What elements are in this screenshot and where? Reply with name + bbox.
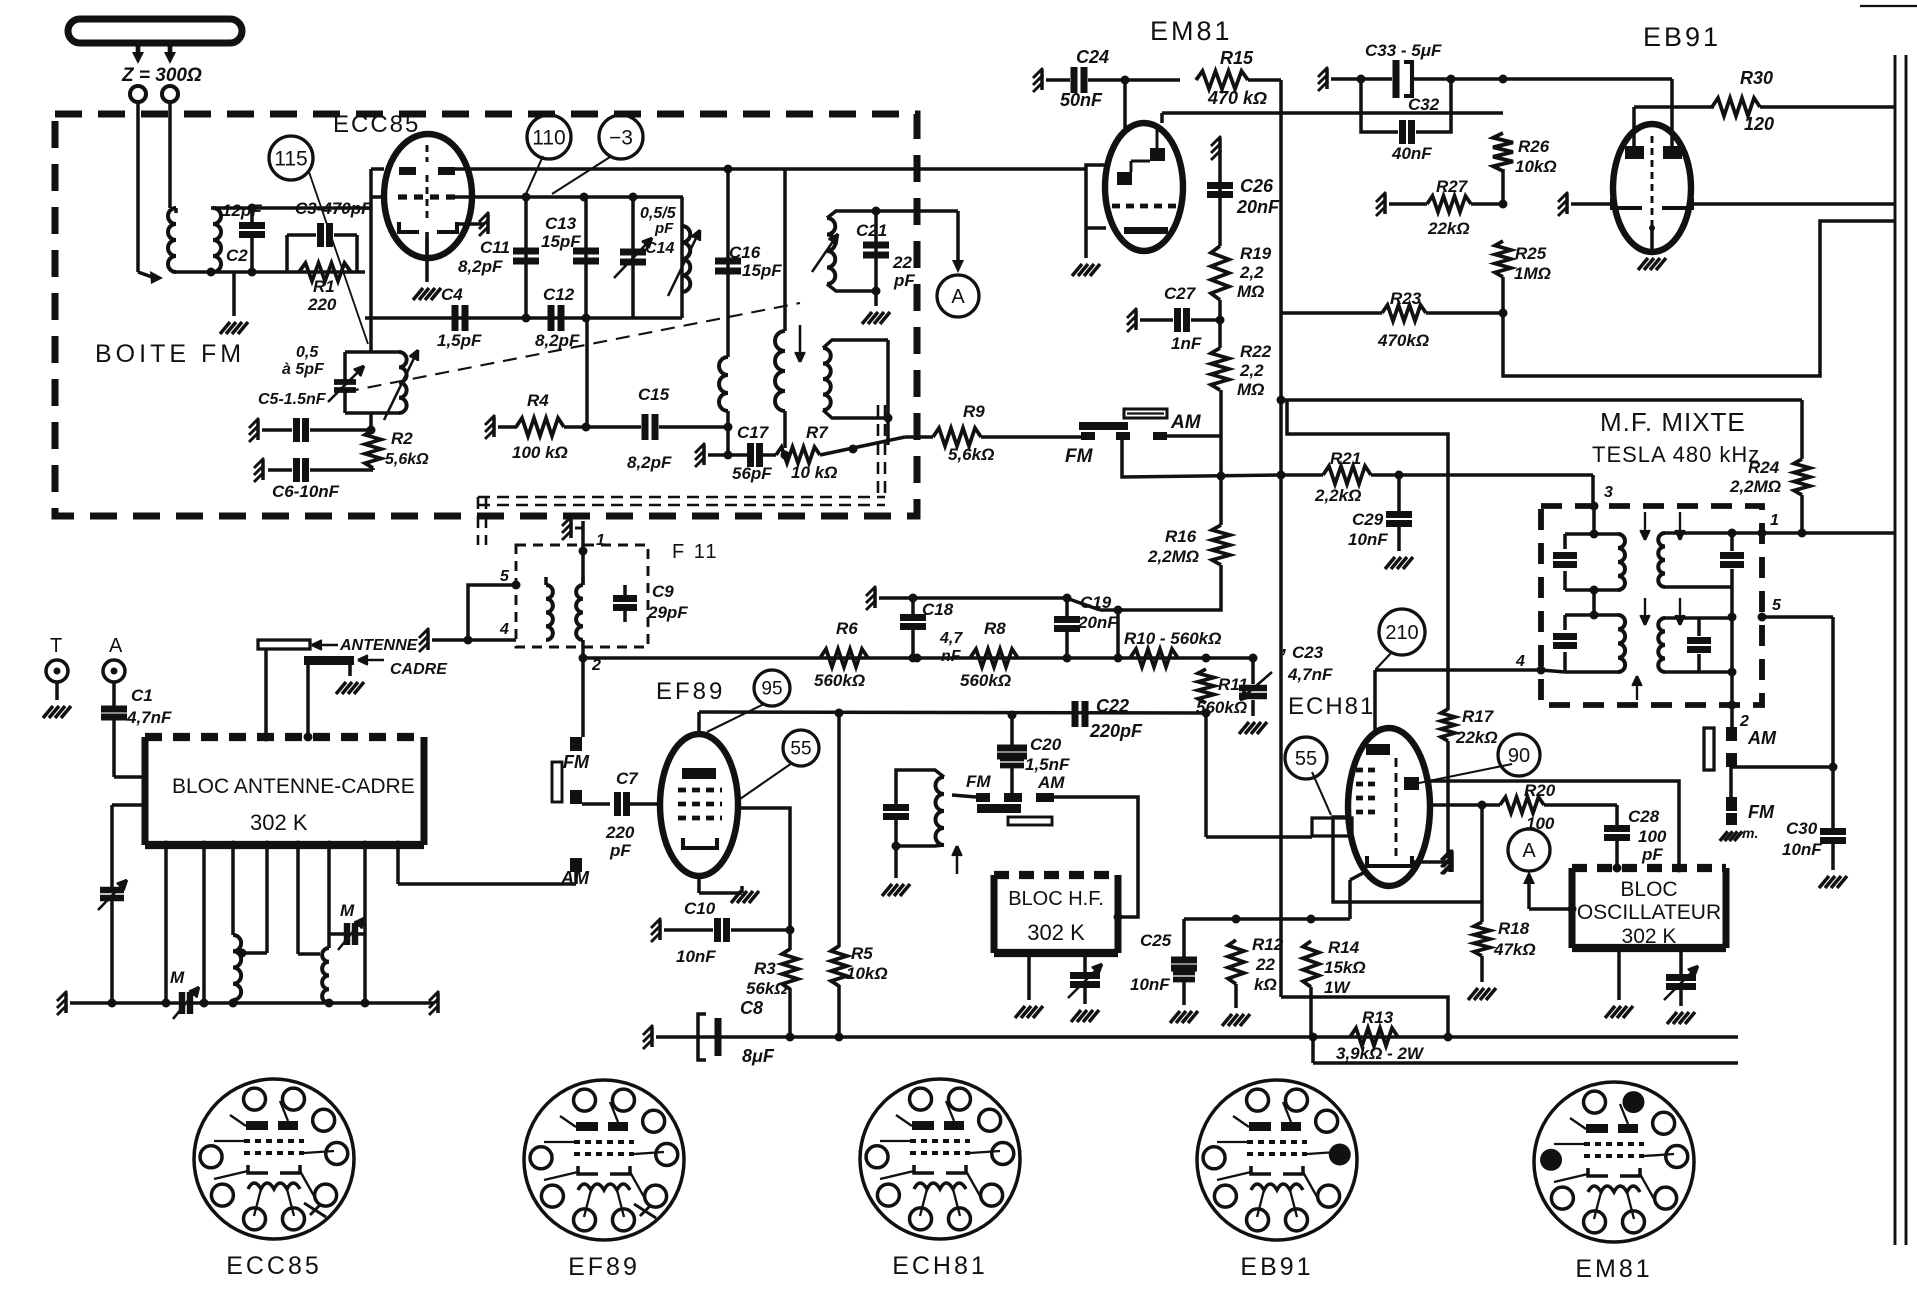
svg-text:ECC85: ECC85 (333, 111, 420, 138)
svg-text:10kΩ: 10kΩ (1515, 157, 1557, 176)
svg-text:210: 210 (1385, 622, 1418, 644)
svg-text:AM: AM (1747, 728, 1777, 748)
svg-text:R6: R6 (836, 619, 858, 638)
svg-text:20nF: 20nF (1236, 197, 1280, 217)
svg-text:1MΩ: 1MΩ (1514, 264, 1551, 283)
svg-text:R23: R23 (1390, 289, 1422, 308)
svg-text:R14: R14 (1328, 938, 1360, 957)
svg-text:R8: R8 (984, 619, 1006, 638)
svg-text:C18: C18 (922, 600, 954, 619)
svg-text:FM: FM (1748, 802, 1775, 822)
svg-text:4,7: 4,7 (939, 630, 963, 647)
svg-text:C7: C7 (616, 769, 639, 788)
svg-text:22: 22 (892, 253, 912, 272)
svg-text:EB91: EB91 (1643, 22, 1721, 52)
svg-text:TESLA 480 kHz: TESLA 480 kHz (1592, 442, 1760, 467)
svg-text:470kΩ: 470kΩ (1377, 331, 1429, 350)
svg-text:R3: R3 (754, 959, 776, 978)
svg-text:EF89: EF89 (568, 1253, 640, 1281)
svg-text:nF: nF (941, 648, 962, 665)
svg-text:22kΩ: 22kΩ (1427, 219, 1470, 238)
svg-text:C27: C27 (1164, 284, 1197, 303)
svg-text:5,6kΩ: 5,6kΩ (385, 451, 429, 468)
svg-text:M.F. MIXTE: M.F. MIXTE (1600, 407, 1746, 437)
svg-text:A: A (109, 635, 123, 657)
svg-text:560kΩ: 560kΩ (814, 671, 865, 690)
svg-text:5,6kΩ: 5,6kΩ (948, 445, 994, 464)
svg-text:55: 55 (1295, 748, 1317, 770)
svg-text:2,2: 2,2 (1239, 263, 1264, 282)
svg-text:2,2MΩ: 2,2MΩ (1729, 477, 1781, 496)
svg-text:R21: R21 (1330, 449, 1361, 468)
svg-text:220: 220 (307, 295, 337, 314)
svg-text:BLOC: BLOC (1620, 878, 1677, 901)
svg-text:A: A (951, 286, 965, 308)
svg-text:OSCILLATEUR: OSCILLATEUR (1577, 901, 1721, 924)
svg-text:2,2: 2,2 (1239, 361, 1264, 380)
svg-text:1nF: 1nF (1171, 334, 1202, 353)
svg-text:C19: C19 (1080, 593, 1112, 612)
svg-text:R10 - 560kΩ: R10 - 560kΩ (1124, 629, 1221, 648)
svg-text:R9: R9 (963, 402, 985, 421)
svg-text:AM: AM (1037, 773, 1065, 792)
svg-text:1,5pF: 1,5pF (437, 331, 482, 350)
svg-text:15pF: 15pF (541, 232, 581, 251)
svg-text:47kΩ: 47kΩ (1493, 940, 1536, 959)
svg-text:R26: R26 (1518, 137, 1550, 156)
svg-text:kΩ: kΩ (1254, 975, 1277, 994)
svg-text:C1: C1 (131, 686, 153, 705)
svg-text:8μF: 8μF (742, 1046, 775, 1066)
svg-text:C12: C12 (543, 285, 575, 304)
svg-text:56kΩ: 56kΩ (746, 979, 788, 998)
svg-text:10 kΩ: 10 kΩ (791, 463, 837, 482)
svg-text:12pF: 12pF (222, 201, 262, 220)
svg-text:20nF: 20nF (1077, 613, 1118, 632)
svg-text:R30: R30 (1740, 68, 1773, 88)
svg-text:ECH81: ECH81 (1288, 693, 1375, 720)
svg-text:A: A (1522, 840, 1536, 862)
svg-text:40nF: 40nF (1391, 144, 1432, 163)
svg-text:pF: pF (654, 220, 674, 237)
svg-text:560kΩ: 560kΩ (960, 671, 1011, 690)
svg-text:C22: C22 (1096, 696, 1129, 716)
svg-text:ANTENNE: ANTENNE (339, 637, 419, 654)
svg-text:120: 120 (1744, 114, 1774, 134)
svg-text:C30: C30 (1786, 819, 1818, 838)
svg-text:R19: R19 (1240, 244, 1272, 263)
svg-text:T: T (50, 635, 62, 657)
svg-text:C16: C16 (729, 243, 761, 262)
svg-text:220: 220 (605, 823, 635, 842)
svg-text:BLOC H.F.: BLOC H.F. (1008, 888, 1104, 910)
svg-text:C4: C4 (441, 285, 463, 304)
svg-text:C25: C25 (1140, 931, 1172, 950)
svg-text:à 5pF: à 5pF (282, 361, 325, 378)
svg-text:C15: C15 (638, 385, 670, 404)
svg-text:R7: R7 (806, 423, 829, 442)
svg-text:1: 1 (1770, 512, 1779, 529)
svg-text:C29: C29 (1352, 510, 1384, 529)
svg-text:C3-470pF: C3-470pF (295, 199, 372, 218)
svg-text:29pF: 29pF (647, 603, 688, 622)
svg-text:EB91: EB91 (1240, 1253, 1313, 1281)
svg-text:C17: C17 (737, 423, 770, 442)
svg-text:M: M (170, 968, 185, 987)
svg-text:R22: R22 (1240, 342, 1272, 361)
svg-text:,: , (1281, 635, 1288, 657)
svg-text:FM: FM (966, 772, 991, 791)
svg-text:10nF: 10nF (676, 947, 716, 966)
svg-text:15pF: 15pF (742, 261, 782, 280)
svg-text:R5: R5 (851, 944, 873, 963)
svg-text:EM81: EM81 (1150, 16, 1233, 46)
svg-text:AM: AM (1170, 412, 1202, 433)
svg-text:C6-10nF: C6-10nF (272, 482, 340, 501)
svg-text:BLOC ANTENNE-CADRE: BLOC ANTENNE-CADRE (172, 775, 415, 798)
svg-text:C11: C11 (480, 238, 510, 257)
svg-text:C5-1.5nF: C5-1.5nF (258, 391, 327, 408)
svg-text:C23: C23 (1292, 643, 1324, 662)
svg-text:95: 95 (761, 679, 782, 700)
svg-text:C33 - 5μF: C33 - 5μF (1365, 41, 1442, 60)
svg-text:R20: R20 (1524, 781, 1556, 800)
svg-text:C21: C21 (856, 221, 887, 240)
svg-text:C32: C32 (1408, 95, 1440, 114)
svg-text:100 kΩ: 100 kΩ (512, 443, 568, 462)
svg-text:R17: R17 (1462, 707, 1495, 726)
svg-text:C14: C14 (645, 240, 674, 257)
svg-text:10nF: 10nF (1130, 975, 1170, 994)
svg-text:MΩ: MΩ (1237, 282, 1264, 301)
svg-text:Z = 300Ω: Z = 300Ω (121, 65, 202, 86)
svg-text:ECH81: ECH81 (892, 1252, 988, 1280)
svg-text:C9: C9 (652, 582, 674, 601)
svg-text:MΩ: MΩ (1237, 380, 1264, 399)
svg-text:3,9kΩ - 2W: 3,9kΩ - 2W (1336, 1044, 1425, 1063)
svg-text:EM81: EM81 (1575, 1255, 1652, 1283)
svg-text:FM: FM (1065, 446, 1094, 467)
svg-text:R27: R27 (1436, 177, 1469, 196)
svg-text:1: 1 (596, 532, 605, 549)
svg-text:15kΩ: 15kΩ (1324, 958, 1366, 977)
svg-text:C13: C13 (545, 214, 577, 233)
svg-text:ECC85: ECC85 (226, 1252, 322, 1280)
svg-text:C20: C20 (1030, 735, 1062, 754)
svg-text:C10: C10 (684, 899, 716, 918)
svg-text:2,2kΩ: 2,2kΩ (1314, 486, 1361, 505)
svg-text:302 K: 302 K (250, 810, 308, 835)
svg-text:pF: pF (1641, 845, 1663, 864)
svg-text:8,2pF: 8,2pF (458, 257, 503, 276)
svg-text:C8: C8 (740, 998, 763, 1018)
svg-text:50nF: 50nF (1060, 90, 1103, 110)
svg-text:560kΩ: 560kΩ (1196, 698, 1247, 717)
svg-text:R15: R15 (1220, 48, 1254, 68)
svg-text:m.: m. (1742, 825, 1758, 841)
svg-text:pF: pF (609, 841, 631, 860)
svg-text:−3: −3 (609, 126, 633, 149)
svg-text:R1: R1 (313, 277, 335, 296)
svg-text:EF89: EF89 (656, 678, 725, 705)
svg-text:R25: R25 (1515, 244, 1547, 263)
svg-text:4,7nF: 4,7nF (126, 708, 172, 727)
svg-text:5: 5 (500, 568, 510, 585)
svg-text:R16: R16 (1165, 527, 1197, 546)
svg-text:R2: R2 (391, 429, 413, 448)
svg-text:3: 3 (1604, 484, 1613, 501)
svg-text:302 K: 302 K (1622, 925, 1677, 948)
svg-text:BOITE FM: BOITE FM (95, 340, 245, 368)
svg-text:8,2pF: 8,2pF (627, 453, 672, 472)
svg-text:CADRE: CADRE (390, 661, 448, 678)
svg-text:C24: C24 (1076, 47, 1109, 67)
svg-text:0,5: 0,5 (296, 344, 319, 361)
svg-text:470 kΩ: 470 kΩ (1207, 88, 1267, 108)
svg-text:115: 115 (274, 147, 307, 170)
svg-text:10nF: 10nF (1782, 840, 1822, 859)
svg-text:110: 110 (532, 126, 565, 149)
svg-text:4: 4 (499, 621, 509, 638)
svg-text:2,2MΩ: 2,2MΩ (1147, 547, 1199, 566)
svg-text:F 11: F 11 (672, 541, 719, 563)
svg-text:22kΩ: 22kΩ (1455, 728, 1498, 747)
svg-text:5: 5 (1772, 597, 1782, 614)
svg-text:1W: 1W (1324, 978, 1351, 997)
svg-text:C26: C26 (1240, 176, 1274, 196)
svg-text:4: 4 (1515, 653, 1525, 670)
svg-text:10nF: 10nF (1348, 530, 1388, 549)
svg-text:55: 55 (790, 739, 811, 760)
svg-text:22: 22 (1255, 955, 1275, 974)
svg-text:pF: pF (893, 271, 915, 290)
svg-text:56pF: 56pF (732, 464, 772, 483)
svg-text:10kΩ: 10kΩ (846, 964, 888, 983)
svg-text:R4: R4 (527, 391, 549, 410)
svg-text:R18: R18 (1498, 919, 1530, 938)
svg-text:C2: C2 (226, 246, 248, 265)
svg-text:4,7nF: 4,7nF (1287, 665, 1333, 684)
svg-text:R13: R13 (1362, 1008, 1394, 1027)
svg-text:M: M (340, 901, 355, 920)
svg-text:1,5nF: 1,5nF (1025, 755, 1070, 774)
svg-text:C28: C28 (1628, 807, 1660, 826)
svg-text:FM: FM (563, 752, 590, 772)
svg-text:302 K: 302 K (1027, 920, 1085, 945)
svg-text:220pF: 220pF (1089, 721, 1143, 741)
svg-text:R12: R12 (1252, 935, 1284, 954)
svg-text:100: 100 (1638, 827, 1667, 846)
